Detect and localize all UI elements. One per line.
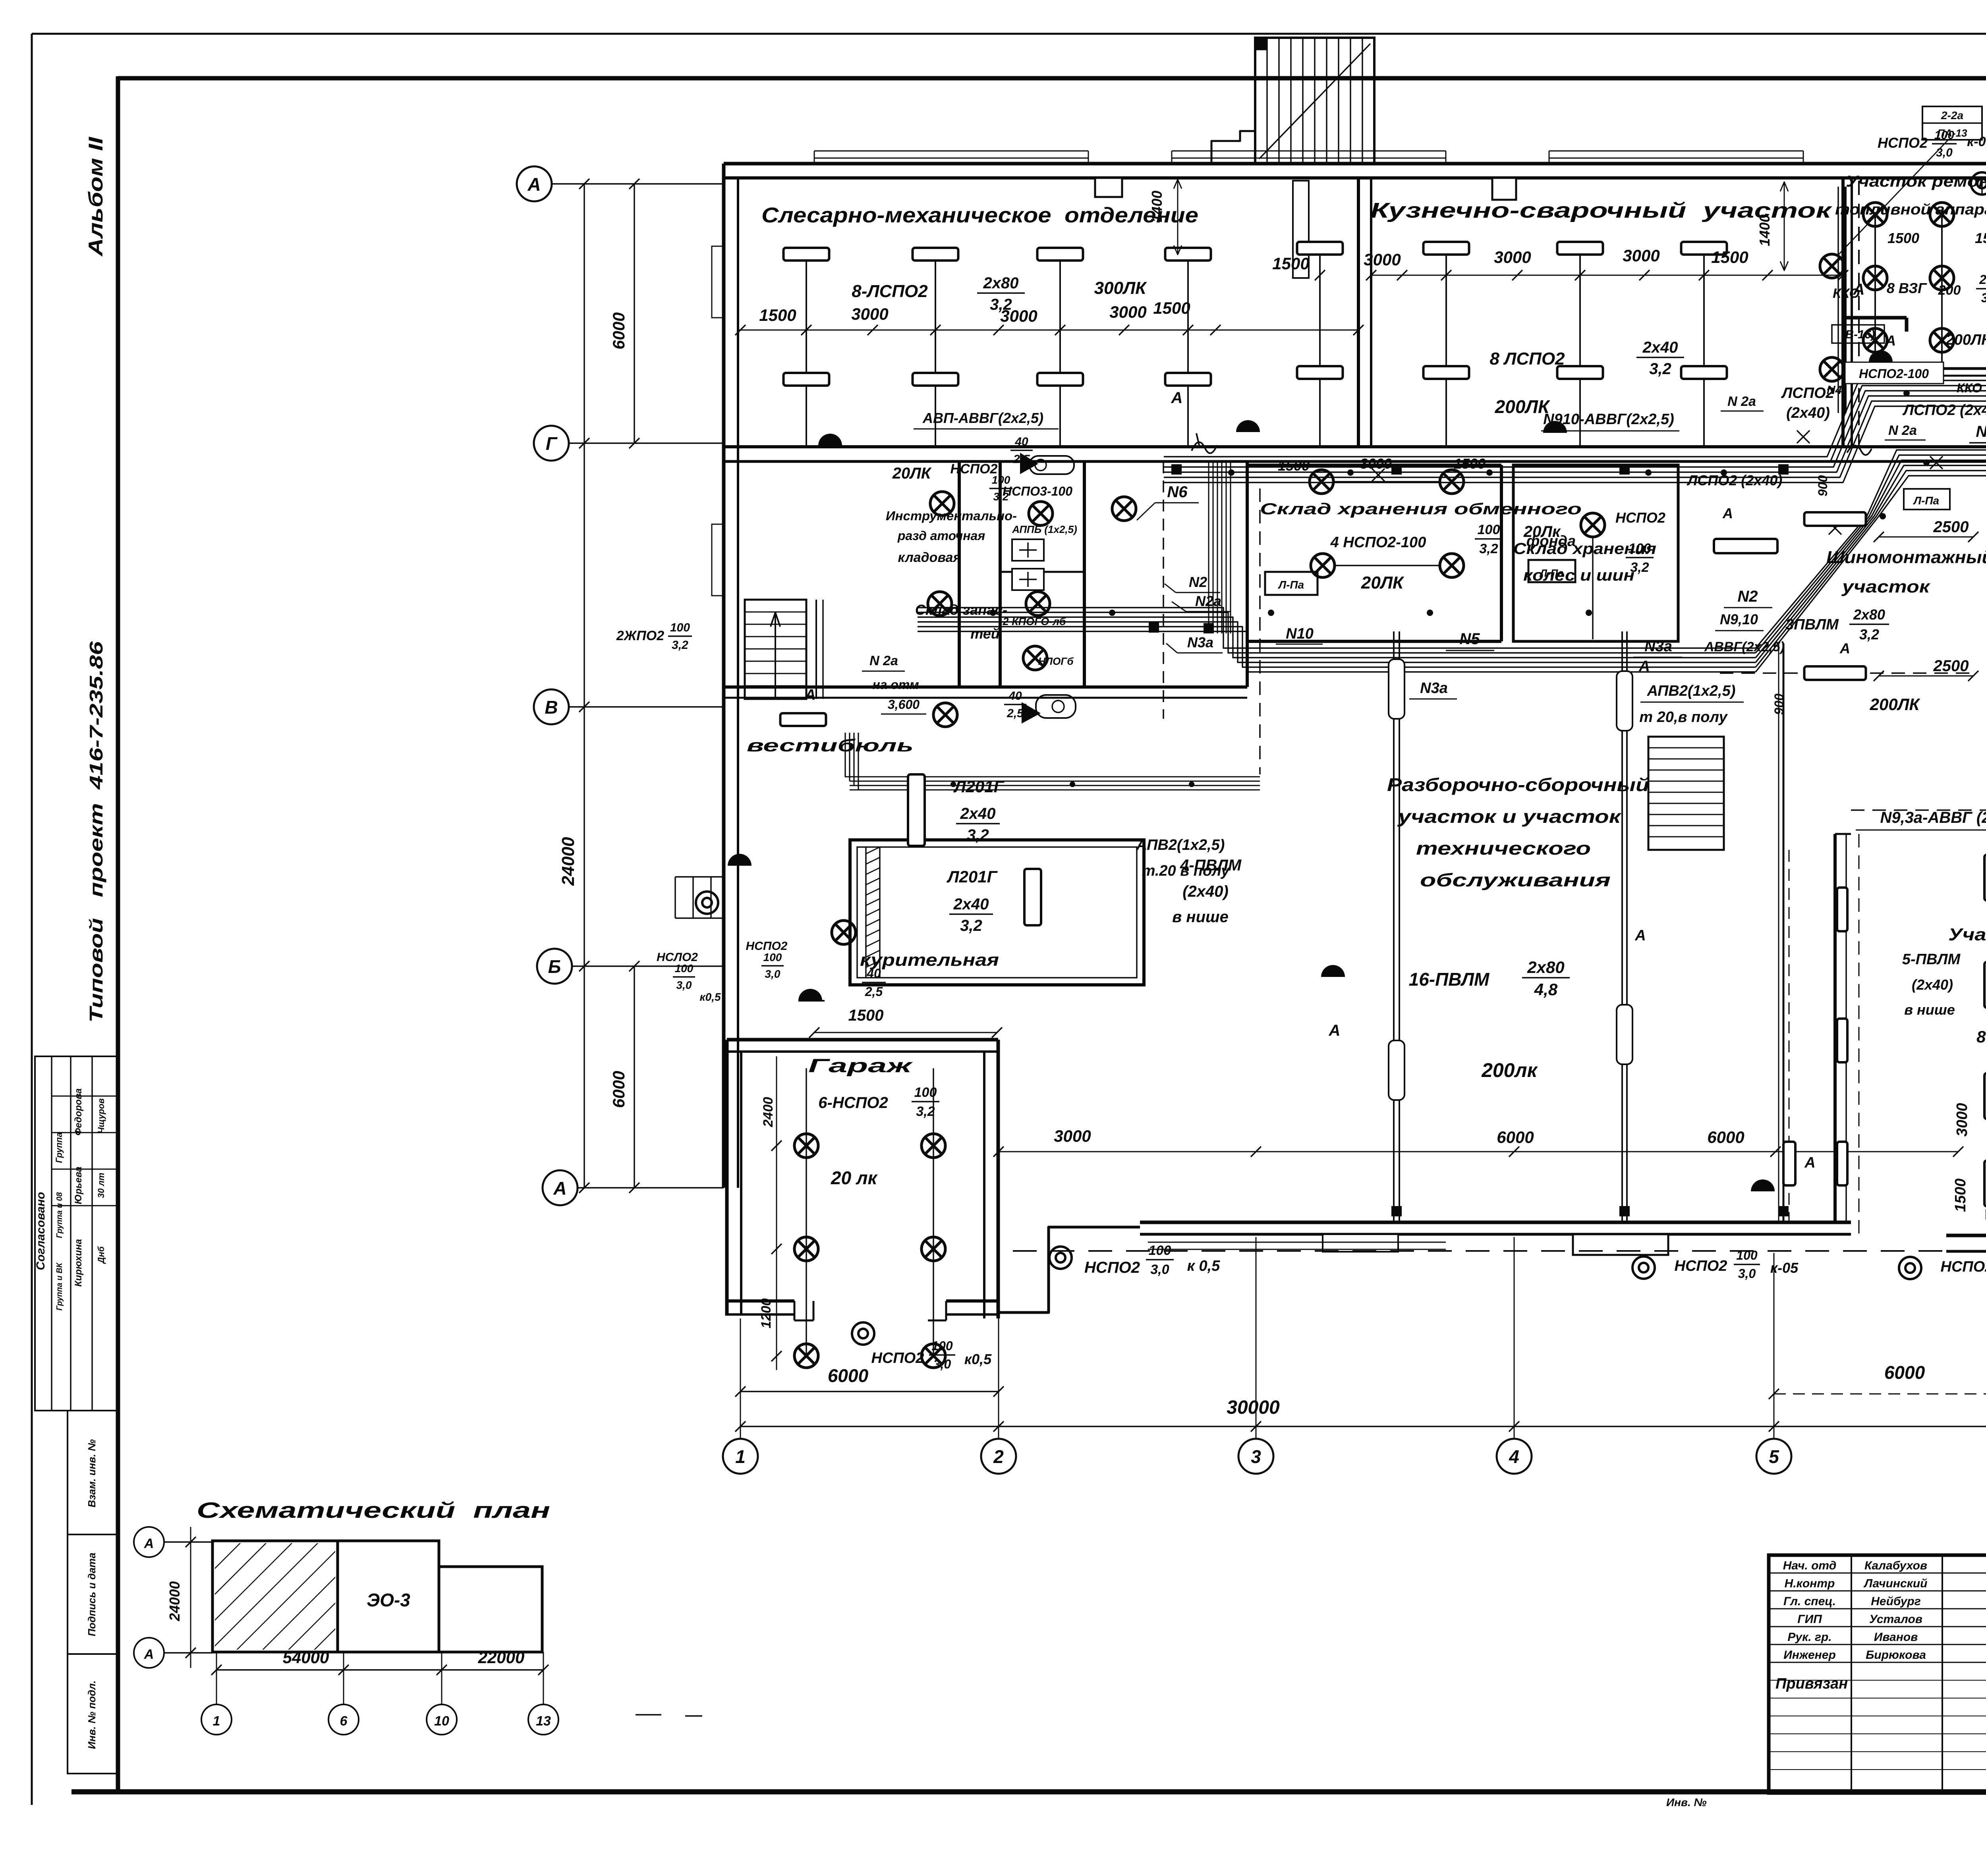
svg-text:А: А [1722, 505, 1733, 521]
svg-text:22000: 22000 [478, 1648, 525, 1667]
svg-text:АВП-АВВГ(2х2,5): АВП-АВВГ(2х2,5) [922, 410, 1043, 426]
svg-text:N5÷8: N5÷8 [1976, 423, 1986, 440]
svg-text:3000: 3000 [851, 305, 888, 323]
svg-text:2х80: 2х80 [1853, 606, 1885, 623]
svg-text:6000: 6000 [1884, 1362, 1925, 1383]
svg-text:Схематический план: Схематический план [197, 1498, 550, 1523]
svg-text:3,0: 3,0 [1936, 146, 1953, 159]
svg-text:3,2: 3,2 [960, 917, 982, 934]
svg-text:разд аточная: разд аточная [897, 529, 985, 543]
svg-text:2,5: 2,5 [1013, 453, 1030, 466]
svg-text:1500: 1500 [1975, 230, 1986, 246]
svg-text:200лк: 200лк [1481, 1059, 1538, 1081]
svg-text:N3а: N3а [1420, 680, 1448, 697]
svg-text:Альбом II: Альбом II [85, 137, 107, 257]
svg-text:N 2а: N 2а [1727, 394, 1756, 409]
svg-text:100: 100 [763, 951, 782, 963]
svg-text:Инструментально-: Инструментально- [886, 509, 1017, 523]
svg-text:200ЛК: 200ЛК [1945, 332, 1986, 348]
svg-text:3,2: 3,2 [672, 639, 688, 652]
svg-text:НЛОГб: НЛОГб [1038, 655, 1074, 667]
svg-text:3,0: 3,0 [1738, 1266, 1756, 1281]
svg-text:2500: 2500 [1933, 657, 1969, 675]
svg-text:Подпись и дата: Подпись и дата [86, 1553, 98, 1637]
svg-text:N2: N2 [1189, 574, 1207, 590]
svg-text:к-05: к-05 [1770, 1260, 1799, 1276]
svg-text:200: 200 [1979, 272, 1986, 287]
svg-text:(2х40): (2х40) [1912, 977, 1953, 993]
svg-text:300ЛК: 300ЛК [1094, 278, 1148, 298]
svg-text:Нач. отд: Нач. отд [1783, 1559, 1837, 1572]
svg-text:20ЛК: 20ЛК [892, 465, 932, 482]
svg-text:(2x40): (2x40) [1786, 405, 1830, 421]
svg-text:Группа и 08: Группа и 08 [55, 1192, 64, 1238]
svg-text:1500: 1500 [1278, 457, 1310, 474]
svg-text:40: 40 [1014, 435, 1028, 448]
svg-text:16-ПВЛМ: 16-ПВЛМ [1409, 969, 1490, 990]
svg-text:к0,5: к0,5 [964, 1351, 992, 1367]
svg-text:100: 100 [1629, 541, 1651, 556]
svg-text:Инв. №: Инв. № [1666, 1796, 1707, 1808]
svg-text:1500: 1500 [1153, 299, 1190, 317]
svg-text:100: 100 [675, 962, 694, 975]
svg-text:6000: 6000 [828, 1365, 869, 1386]
svg-text:Нейбург: Нейбург [1871, 1595, 1921, 1608]
svg-text:4,8: 4,8 [1534, 980, 1558, 999]
svg-text:колес и шин: колес и шин [1523, 567, 1634, 584]
svg-text:6000: 6000 [1497, 1128, 1534, 1146]
svg-text:т 20,в полу: т 20,в полу [1639, 709, 1728, 726]
svg-text:3,600: 3,600 [888, 697, 920, 712]
svg-text:Федорова: Федорова [73, 1089, 84, 1136]
svg-text:3000: 3000 [1360, 455, 1392, 472]
svg-text:40: 40 [1008, 689, 1022, 703]
svg-text:ЛСПО2 (2х40): ЛСПО2 (2х40) [1687, 472, 1783, 488]
svg-text:А: А [1634, 927, 1646, 944]
svg-text:8 -ПВЛМ-Д: 8 -ПВЛМ-Д [1976, 1027, 1986, 1046]
svg-text:ЭО-3: ЭО-3 [367, 1590, 410, 1610]
svg-text:НСПО2: НСПО2 [1084, 1259, 1140, 1276]
svg-text:Привязан: Привязан [1775, 1675, 1848, 1692]
svg-text:3,2: 3,2 [1649, 360, 1671, 378]
svg-text:Б: Б [548, 956, 561, 977]
svg-text:N 2а: N 2а [1888, 423, 1917, 438]
svg-text:8-ЛСПО2: 8-ЛСПО2 [852, 282, 928, 301]
svg-text:Лачинский: Лачинский [1864, 1577, 1928, 1590]
svg-text:6000: 6000 [1707, 1128, 1744, 1146]
svg-text:20 лк: 20 лк [831, 1168, 878, 1188]
svg-text:к 0,5: к 0,5 [1187, 1258, 1221, 1274]
svg-text:100: 100 [1736, 1248, 1758, 1262]
svg-text:3000: 3000 [1109, 303, 1146, 321]
svg-text:2ЖПО2: 2ЖПО2 [616, 628, 664, 643]
svg-text:НСПО2: НСПО2 [1878, 135, 1928, 151]
svg-text:2,5: 2,5 [865, 984, 883, 999]
svg-text:3000: 3000 [1494, 248, 1531, 266]
svg-text:Участок наружной: Участок наружной [1948, 925, 1986, 944]
svg-text:ПА-13: ПА-13 [1937, 127, 1967, 139]
svg-text:(В-16): (В-16) [1841, 328, 1875, 341]
svg-text:НСПО2-100: НСПО2-100 [1859, 367, 1929, 381]
svg-text:100: 100 [1478, 522, 1500, 537]
svg-text:Л-Па: Л-Па [1278, 579, 1304, 591]
svg-text:1500: 1500 [759, 306, 796, 324]
svg-text:Иванов: Иванов [1874, 1631, 1918, 1644]
svg-text:ККО: ККО [1957, 381, 1982, 395]
svg-text:3000: 3000 [1623, 246, 1660, 265]
svg-text:АПВ2(1х2,5): АПВ2(1х2,5) [1647, 683, 1736, 699]
svg-text:20Лк: 20Лк [1523, 523, 1561, 540]
svg-text:1400: 1400 [1149, 191, 1165, 222]
svg-text:N 2а: N 2а [869, 653, 898, 668]
svg-text:900: 900 [1816, 475, 1830, 496]
svg-text:1500: 1500 [1454, 455, 1486, 472]
svg-text:участок и участок: участок и участок [1397, 806, 1622, 827]
svg-text:ККО: ККО [1833, 286, 1860, 301]
svg-text:АВВГ(2х2,5): АВВГ(2х2,5) [1704, 639, 1785, 654]
svg-text:1500: 1500 [1952, 1178, 1969, 1212]
svg-text:2x80: 2x80 [983, 274, 1019, 292]
svg-text:Л201Г: Л201Г [953, 777, 1005, 796]
svg-text:100: 100 [670, 621, 690, 634]
svg-text:20ЛК: 20ЛК [1361, 573, 1404, 593]
svg-text:Группа: Группа [54, 1132, 64, 1163]
svg-text:N2: N2 [1737, 588, 1758, 605]
svg-text:3,2: 3,2 [1630, 560, 1649, 575]
svg-text:100: 100 [914, 1085, 937, 1100]
svg-text:N910-АВВГ(2х2,5): N910-АВВГ(2х2,5) [1543, 411, 1674, 428]
svg-text:Гараж: Гараж [808, 1056, 914, 1077]
svg-text:к0,5: к0,5 [699, 991, 721, 1003]
svg-text:вестибюль: вестибюль [747, 736, 914, 755]
svg-text:Н.контр: Н.контр [1785, 1577, 1835, 1590]
svg-text:2х80: 2х80 [1527, 958, 1564, 977]
svg-text:N9,10: N9,10 [1720, 611, 1758, 627]
svg-text:3,0: 3,0 [1150, 1262, 1169, 1277]
svg-text:А: А [144, 1536, 154, 1551]
svg-text:Согласовано: Согласовано [34, 1192, 47, 1270]
svg-text:тей: тей [970, 625, 1000, 642]
svg-text:2х40: 2х40 [953, 896, 989, 913]
svg-text:Группа и ВК: Группа и ВК [55, 1262, 64, 1310]
svg-text:2x40: 2x40 [1642, 339, 1678, 356]
svg-text:А: А [804, 687, 815, 703]
svg-text:участок: участок [1841, 577, 1931, 596]
svg-text:200ЛК: 200ЛК [1870, 695, 1921, 714]
svg-text:В: В [545, 697, 558, 718]
svg-text:10: 10 [434, 1714, 449, 1729]
svg-text:НСПО2: НСПО2 [1941, 1258, 1986, 1275]
svg-text:Склад запас-: Склад запас- [915, 602, 1007, 618]
svg-text:4: 4 [1509, 1446, 1519, 1467]
svg-text:АППБ (1х2,5): АППБ (1х2,5) [1012, 523, 1077, 535]
svg-text:4-ПВЛМ: 4-ПВЛМ [1180, 857, 1242, 874]
svg-text:Усталов: Усталов [1869, 1613, 1922, 1626]
svg-text:2 КПОГО-лб: 2 КПОГО-лб [1003, 616, 1066, 627]
svg-text:6000: 6000 [609, 313, 628, 349]
svg-text:на отм: на отм [872, 677, 919, 692]
svg-text:6-НСПО2: 6-НСПО2 [818, 1094, 888, 1112]
svg-text:3,2: 3,2 [1981, 291, 1986, 305]
svg-text:кладовая: кладовая [898, 550, 961, 565]
svg-text:Калабухов: Калабухов [1864, 1559, 1927, 1572]
svg-text:Г: Г [546, 433, 558, 454]
svg-text:3,2: 3,2 [1859, 626, 1879, 643]
svg-text:НСПО3-100: НСПО3-100 [1003, 484, 1072, 498]
svg-text:Л201Г: Л201Г [947, 867, 998, 886]
svg-text:1200: 1200 [759, 1298, 774, 1328]
svg-text:30 лт: 30 лт [96, 1173, 106, 1198]
svg-text:3,0: 3,0 [676, 979, 692, 991]
svg-text:200: 200 [1938, 283, 1961, 298]
svg-text:N3а: N3а [1644, 638, 1672, 655]
svg-text:Разборочно-сборочный: Разборочно-сборочный [1387, 774, 1649, 795]
svg-text:2: 2 [993, 1446, 1004, 1467]
svg-text:N9,3а-АВВГ (2х2,5): N9,3а-АВВГ (2х2,5) [1880, 809, 1986, 826]
svg-text:НСПО2: НСПО2 [950, 461, 998, 477]
svg-text:НСПО2: НСПО2 [1675, 1258, 1727, 1274]
svg-text:3ПВЛМ: 3ПВЛМ [1785, 616, 1839, 633]
svg-text:4 НСПО2-100: 4 НСПО2-100 [1330, 534, 1426, 551]
svg-text:Типовой проект 416-7-235.86: Типовой проект 416-7-235.86 [86, 641, 106, 1023]
svg-text:1400: 1400 [1756, 214, 1773, 246]
svg-text:1500: 1500 [1272, 254, 1309, 273]
svg-text:ЛСПО2 (2х40): ЛСПО2 (2х40) [1902, 402, 1986, 419]
svg-text:24000: 24000 [558, 837, 578, 886]
svg-text:N3а: N3а [1187, 634, 1213, 650]
svg-text:Бирюкова: Бирюкова [1866, 1648, 1926, 1662]
svg-text:Шиномонтажный: Шиномонтажный [1826, 548, 1986, 567]
svg-text:3,2: 3,2 [1479, 541, 1498, 556]
svg-text:НСПО2: НСПО2 [1615, 510, 1665, 526]
svg-text:Взам. инв. №: Взам. инв. № [86, 1439, 98, 1507]
svg-text:2,5: 2,5 [1007, 707, 1024, 720]
svg-text:ЛСПО2: ЛСПО2 [1781, 385, 1834, 401]
svg-text:3,0: 3,0 [933, 1357, 951, 1371]
svg-text:А: А [144, 1647, 154, 1662]
svg-text:40: 40 [866, 966, 881, 980]
svg-text:Днб: Днб [96, 1246, 106, 1264]
svg-text:3000: 3000 [1954, 1103, 1971, 1137]
svg-text:Склад хранения обменного: Склад хранения обменного [1260, 500, 1582, 518]
svg-text:в нише: в нише [1904, 1002, 1955, 1018]
svg-text:1500: 1500 [848, 1007, 884, 1024]
svg-text:обслуживания: обслуживания [1420, 870, 1611, 890]
svg-text:в нише: в нише [1172, 908, 1229, 926]
svg-text:А: А [1329, 1022, 1341, 1039]
svg-text:8 ЛСПО2: 8 ЛСПО2 [1489, 349, 1565, 369]
svg-text:Инженер: Инженер [1783, 1648, 1836, 1662]
svg-text:Рук. гр.: Рук. гр. [1787, 1631, 1831, 1644]
svg-text:технического: технического [1416, 838, 1591, 859]
svg-text:N5: N5 [1459, 630, 1480, 648]
svg-text:А: А [1171, 389, 1183, 407]
svg-text:200ЛК: 200ЛК [1495, 396, 1550, 417]
svg-text:2400: 2400 [761, 1097, 776, 1127]
svg-text:А: А [1885, 332, 1896, 349]
svg-text:N2а: N2а [1195, 593, 1221, 609]
svg-text:6: 6 [340, 1714, 348, 1729]
svg-text:2х40: 2х40 [960, 805, 996, 822]
svg-text:N6: N6 [1167, 483, 1188, 501]
svg-text:2-2а: 2-2а [1941, 109, 1963, 122]
svg-text:1: 1 [213, 1714, 220, 1729]
svg-text:Гл. спец.: Гл. спец. [1783, 1595, 1836, 1608]
svg-text:НСПО2: НСПО2 [871, 1350, 924, 1366]
svg-text:ГИП: ГИП [1797, 1613, 1822, 1626]
svg-text:100: 100 [931, 1339, 953, 1353]
svg-text:24000: 24000 [166, 1581, 183, 1621]
svg-text:(2х40): (2х40) [1182, 883, 1229, 900]
svg-text:3: 3 [1251, 1446, 1261, 1467]
svg-text:54000: 54000 [283, 1648, 329, 1667]
svg-text:1500: 1500 [1711, 248, 1748, 266]
svg-text:3000: 3000 [1054, 1127, 1091, 1145]
svg-text:Кирюхина: Кирюхина [73, 1239, 84, 1287]
svg-text:3,0: 3,0 [765, 968, 780, 980]
svg-text:1: 1 [735, 1446, 746, 1467]
svg-text:А: А [1804, 1154, 1815, 1171]
svg-text:Инв. № подл.: Инв. № подл. [86, 1681, 98, 1749]
svg-text:1500: 1500 [1887, 230, 1919, 246]
svg-text:3,2: 3,2 [916, 1104, 935, 1119]
svg-text:3,2: 3,2 [967, 826, 989, 844]
svg-text:А: А [527, 174, 541, 195]
svg-text:900: 900 [1772, 693, 1786, 715]
svg-text:13: 13 [536, 1714, 551, 1729]
svg-text:8 ВЗГ: 8 ВЗГ [1887, 280, 1927, 296]
svg-text:Юрьева: Юрьева [73, 1167, 84, 1204]
svg-text:5: 5 [1769, 1446, 1779, 1467]
svg-text:N10: N10 [1286, 625, 1314, 642]
svg-text:Слесарно-механическое отделен: Слесарно-механическое отделение [761, 203, 1198, 227]
svg-text:6000: 6000 [609, 1071, 628, 1108]
svg-text:100: 100 [1149, 1243, 1171, 1258]
svg-text:3000: 3000 [1364, 250, 1401, 269]
svg-text:30000: 30000 [1227, 1397, 1280, 1418]
svg-text:3,2: 3,2 [990, 296, 1012, 313]
svg-text:к-0,5: к-0,5 [1967, 134, 1986, 149]
svg-text:А: А [1638, 658, 1650, 675]
svg-text:Л-Па: Л-Па [1913, 494, 1939, 507]
svg-text:топливной аппаратуры: топливной аппаратуры [1835, 201, 1986, 218]
svg-text:Чщуров: Чщуров [96, 1098, 106, 1134]
svg-text:А: А [553, 1178, 566, 1199]
svg-text:АПВ2(1х2,5): АПВ2(1х2,5) [1136, 837, 1225, 853]
svg-text:Участок ремонта: Участок ремонта [1846, 173, 1986, 190]
svg-text:5-ПВЛМ: 5-ПВЛМ [1902, 951, 1961, 968]
svg-text:А: А [1839, 640, 1850, 656]
svg-text:2500: 2500 [1933, 518, 1969, 536]
